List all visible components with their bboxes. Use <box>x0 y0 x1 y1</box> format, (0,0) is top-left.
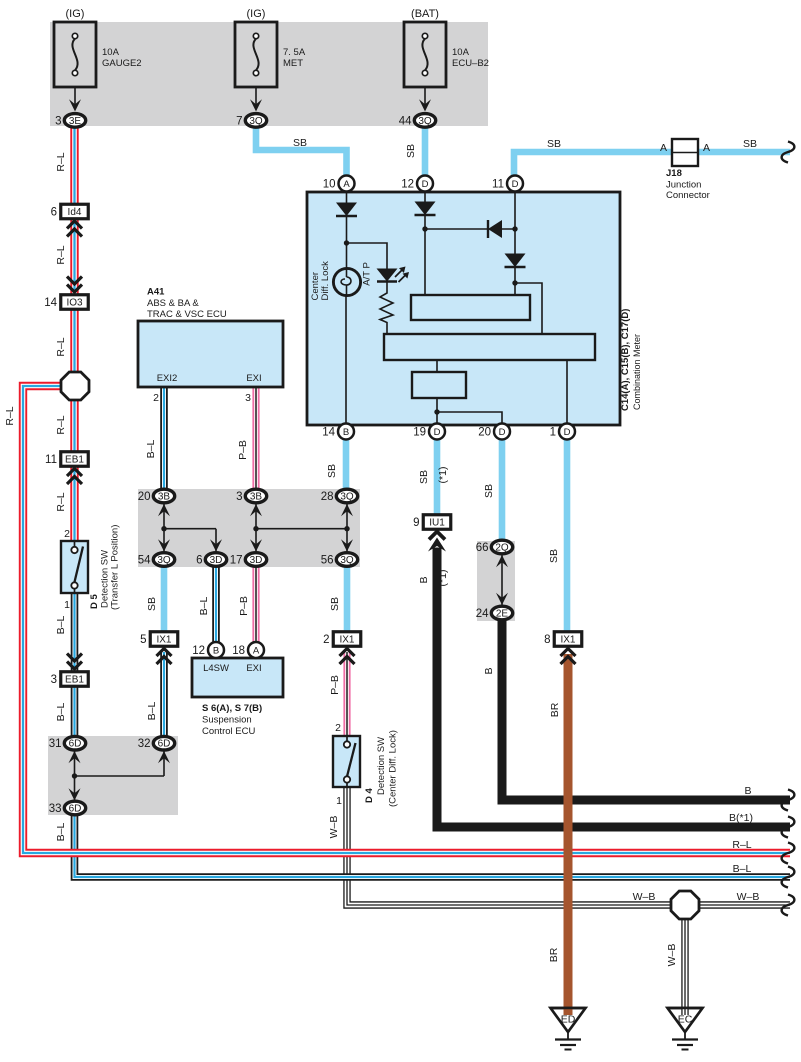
svg-text:D: D <box>422 179 429 190</box>
svg-text:EXI: EXI <box>246 373 261 384</box>
svg-text:S 6(A), S 7(B): S 6(A), S 7(B) <box>202 703 262 714</box>
svg-text:EB1: EB1 <box>65 455 84 466</box>
svg-text:(BAT): (BAT) <box>411 8 439 20</box>
svg-text:SB: SB <box>483 484 495 498</box>
svg-text:Junction: Junction <box>666 180 701 191</box>
svg-text:Combination Meter: Combination Meter <box>632 334 642 410</box>
svg-text:3: 3 <box>51 674 57 686</box>
svg-text:ECU–B2: ECU–B2 <box>452 58 489 69</box>
svg-text:10: 10 <box>323 179 336 191</box>
svg-text:2: 2 <box>335 722 341 734</box>
svg-text:(IG): (IG) <box>66 8 85 20</box>
svg-text:C14(A), C15(B), C17(D): C14(A), C15(B), C17(D) <box>620 309 631 411</box>
svg-text:Control ECU: Control ECU <box>202 726 255 737</box>
svg-text:P–B: P–B <box>238 596 250 616</box>
svg-text:W–B: W–B <box>737 891 760 903</box>
svg-text:19: 19 <box>413 427 426 439</box>
svg-text:P–B: P–B <box>329 675 341 695</box>
svg-text:6D: 6D <box>69 804 82 815</box>
svg-text:IX1: IX1 <box>156 635 171 646</box>
svg-text:Connector: Connector <box>666 190 710 201</box>
svg-text:9: 9 <box>413 517 419 529</box>
svg-text:56: 56 <box>321 555 334 567</box>
svg-text:D: D <box>499 427 506 438</box>
svg-text:11: 11 <box>492 179 504 191</box>
svg-text:IX1: IX1 <box>560 635 575 646</box>
svg-text:12: 12 <box>401 179 414 191</box>
svg-text:5: 5 <box>140 634 146 646</box>
svg-text:D: D <box>564 427 571 438</box>
svg-text:GAUGE2: GAUGE2 <box>102 58 142 69</box>
svg-text:3B: 3B <box>250 492 263 503</box>
svg-text:6D: 6D <box>158 739 171 750</box>
svg-text:A: A <box>343 179 350 190</box>
svg-text:B–L: B–L <box>55 616 67 635</box>
svg-text:A/T P: A/T P <box>362 262 373 286</box>
svg-text:(*1): (*1) <box>437 570 449 587</box>
svg-text:ABS & BA &: ABS & BA & <box>147 298 199 309</box>
svg-text:B(*1): B(*1) <box>729 812 753 824</box>
svg-text:17: 17 <box>230 555 243 567</box>
svg-text:24: 24 <box>476 608 489 620</box>
svg-text:IX1: IX1 <box>339 635 354 646</box>
svg-text:R–L: R–L <box>55 415 67 434</box>
svg-text:(Center Diff. Lock): (Center Diff. Lock) <box>388 730 399 807</box>
svg-text:14: 14 <box>44 297 57 309</box>
svg-text:SB: SB <box>405 144 417 158</box>
svg-text:3Q: 3Q <box>340 492 354 503</box>
svg-text:B–L: B–L <box>145 440 157 459</box>
svg-text:MET: MET <box>283 58 303 69</box>
svg-text:B: B <box>418 576 430 583</box>
svg-text:3Q: 3Q <box>249 116 263 127</box>
svg-text:Suspension: Suspension <box>202 715 252 726</box>
svg-text:44: 44 <box>399 115 412 127</box>
svg-text:18: 18 <box>232 645 245 657</box>
svg-text:3: 3 <box>245 392 251 404</box>
svg-text:3: 3 <box>55 115 61 127</box>
svg-text:EXI2: EXI2 <box>157 373 178 384</box>
svg-text:3Q: 3Q <box>340 555 354 566</box>
svg-text:D: D <box>512 179 519 190</box>
svg-text:EC: EC <box>678 1014 693 1026</box>
svg-text:11: 11 <box>45 454 57 466</box>
svg-text:A41: A41 <box>147 287 165 298</box>
svg-text:A: A <box>660 142 667 154</box>
svg-text:6: 6 <box>196 555 202 567</box>
svg-text:(Transfer L Position): (Transfer L Position) <box>110 525 121 610</box>
svg-text:BR: BR <box>549 702 561 717</box>
svg-text:B–L: B–L <box>146 702 158 721</box>
svg-text:D 5: D 5 <box>89 594 100 610</box>
svg-text:SB: SB <box>547 138 561 150</box>
svg-text:32: 32 <box>138 738 151 750</box>
svg-text:IU1: IU1 <box>429 518 445 529</box>
svg-text:B: B <box>213 645 219 656</box>
svg-text:(IG): (IG) <box>247 8 266 20</box>
svg-text:SB: SB <box>329 597 341 611</box>
svg-text:14: 14 <box>322 427 335 439</box>
svg-text:R–L: R–L <box>732 839 751 851</box>
svg-text:3D: 3D <box>250 555 263 566</box>
svg-text:1: 1 <box>336 795 342 807</box>
svg-text:D 4: D 4 <box>364 788 375 804</box>
svg-text:8: 8 <box>544 634 550 646</box>
svg-text:28: 28 <box>321 491 334 503</box>
svg-text:W–B: W–B <box>666 944 678 967</box>
svg-text:EXI: EXI <box>246 663 261 674</box>
svg-text:B: B <box>483 667 495 674</box>
svg-text:2Q: 2Q <box>495 543 509 554</box>
svg-text:B–L: B–L <box>198 597 210 616</box>
svg-text:SB: SB <box>146 597 158 611</box>
svg-text:10A: 10A <box>452 47 470 58</box>
svg-text:SB: SB <box>326 464 338 478</box>
svg-text:B: B <box>343 427 349 438</box>
svg-text:B–L: B–L <box>55 703 67 722</box>
svg-text:IO3: IO3 <box>66 298 83 309</box>
svg-text:33: 33 <box>49 803 62 815</box>
svg-text:3Q: 3Q <box>157 555 171 566</box>
svg-text:7: 7 <box>236 115 242 127</box>
svg-text:BR: BR <box>548 947 560 962</box>
svg-text:3B: 3B <box>158 492 171 503</box>
svg-text:20: 20 <box>138 491 151 503</box>
svg-text:SB: SB <box>548 549 560 563</box>
svg-text:B–L: B–L <box>55 823 67 842</box>
svg-text:P–B: P–B <box>237 440 249 460</box>
svg-text:D: D <box>434 427 441 438</box>
svg-text:54: 54 <box>138 555 151 567</box>
svg-text:6D: 6D <box>69 739 82 750</box>
svg-text:L4SW: L4SW <box>203 663 229 674</box>
svg-text:R–L: R–L <box>55 245 67 264</box>
svg-text:ED: ED <box>561 1014 576 1026</box>
svg-text:R–L: R–L <box>55 337 67 356</box>
svg-text:66: 66 <box>476 542 489 554</box>
svg-text:10A: 10A <box>102 47 120 58</box>
svg-text:R–L: R–L <box>55 492 67 511</box>
svg-text:1: 1 <box>64 599 70 611</box>
svg-text:SB: SB <box>293 137 307 149</box>
svg-text:SB: SB <box>418 470 430 484</box>
svg-text:3E: 3E <box>69 116 82 127</box>
svg-text:2: 2 <box>153 392 159 404</box>
svg-text:SB: SB <box>743 138 757 150</box>
svg-text:Detection SW: Detection SW <box>376 737 387 795</box>
svg-text:3Q: 3Q <box>418 116 432 127</box>
svg-text:TRAC & VSC ECU: TRAC & VSC ECU <box>147 309 227 320</box>
svg-text:R–L: R–L <box>55 152 67 171</box>
svg-text:A: A <box>253 645 260 656</box>
svg-text:W–B: W–B <box>633 891 656 903</box>
svg-text:6: 6 <box>51 207 57 219</box>
svg-text:Diff. Lock: Diff. Lock <box>320 261 331 301</box>
svg-text:W–B: W–B <box>328 816 340 839</box>
svg-text:1: 1 <box>550 427 556 439</box>
svg-text:B–L: B–L <box>733 863 752 875</box>
svg-text:12: 12 <box>192 645 205 657</box>
svg-text:R–L: R–L <box>4 406 16 425</box>
svg-text:2: 2 <box>323 634 329 646</box>
svg-text:(*1): (*1) <box>437 467 449 484</box>
svg-text:3: 3 <box>236 491 242 503</box>
svg-text:Id4: Id4 <box>68 207 82 218</box>
svg-text:2E: 2E <box>496 609 509 620</box>
svg-text:7. 5A: 7. 5A <box>283 47 306 58</box>
svg-text:3D: 3D <box>210 555 223 566</box>
svg-text:B: B <box>744 785 751 797</box>
svg-text:2: 2 <box>64 528 70 540</box>
svg-text:31: 31 <box>49 738 62 750</box>
svg-text:A: A <box>703 142 710 154</box>
svg-text:20: 20 <box>478 427 491 439</box>
svg-text:EB1: EB1 <box>65 675 84 686</box>
svg-text:J18: J18 <box>666 168 682 179</box>
